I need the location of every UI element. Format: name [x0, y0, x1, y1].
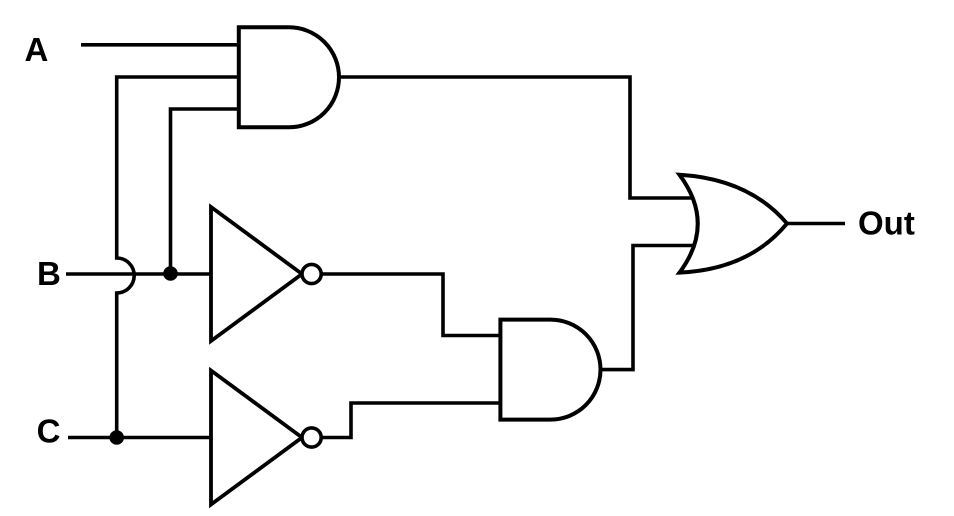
junction dot on B wire — [163, 266, 178, 281]
AND gate 2 (inputs NOT-B, NOT-C) — [500, 320, 600, 420]
inverter NOT1 bubble — [302, 264, 321, 283]
OR gate — [680, 175, 788, 273]
wire: C branch up to AND1 middle input, with hop over B wire — [117, 77, 241, 438]
AND gate 1 (inputs A, C, B) — [239, 27, 339, 127]
svg-text:B: B — [37, 255, 61, 292]
wire: input A to AND1 — [81, 43, 241, 47]
wire: NOT2 output to AND2 bottom input — [320, 403, 502, 438]
svg-text:Out: Out — [858, 205, 915, 242]
inverter NOT2 bubble — [302, 428, 321, 447]
wire: AND2 output to OR bottom input — [598, 246, 696, 370]
svg-text:A: A — [25, 31, 49, 68]
svg-text:C: C — [37, 413, 61, 450]
wire: OR output — [787, 222, 845, 226]
junction dot on C wire — [109, 430, 124, 445]
wire: input C to NOT2 — [68, 436, 211, 440]
inverter NOT1 triangle — [211, 207, 302, 341]
wire: NOT1 output to AND2 top input — [320, 274, 502, 336]
wire: AND1 output to OR top input — [336, 77, 694, 198]
wire: B branch up to AND1 bottom input — [171, 109, 242, 274]
inverter NOT2 triangle — [211, 371, 302, 505]
wire: input B to NOT1 — [66, 272, 211, 276]
